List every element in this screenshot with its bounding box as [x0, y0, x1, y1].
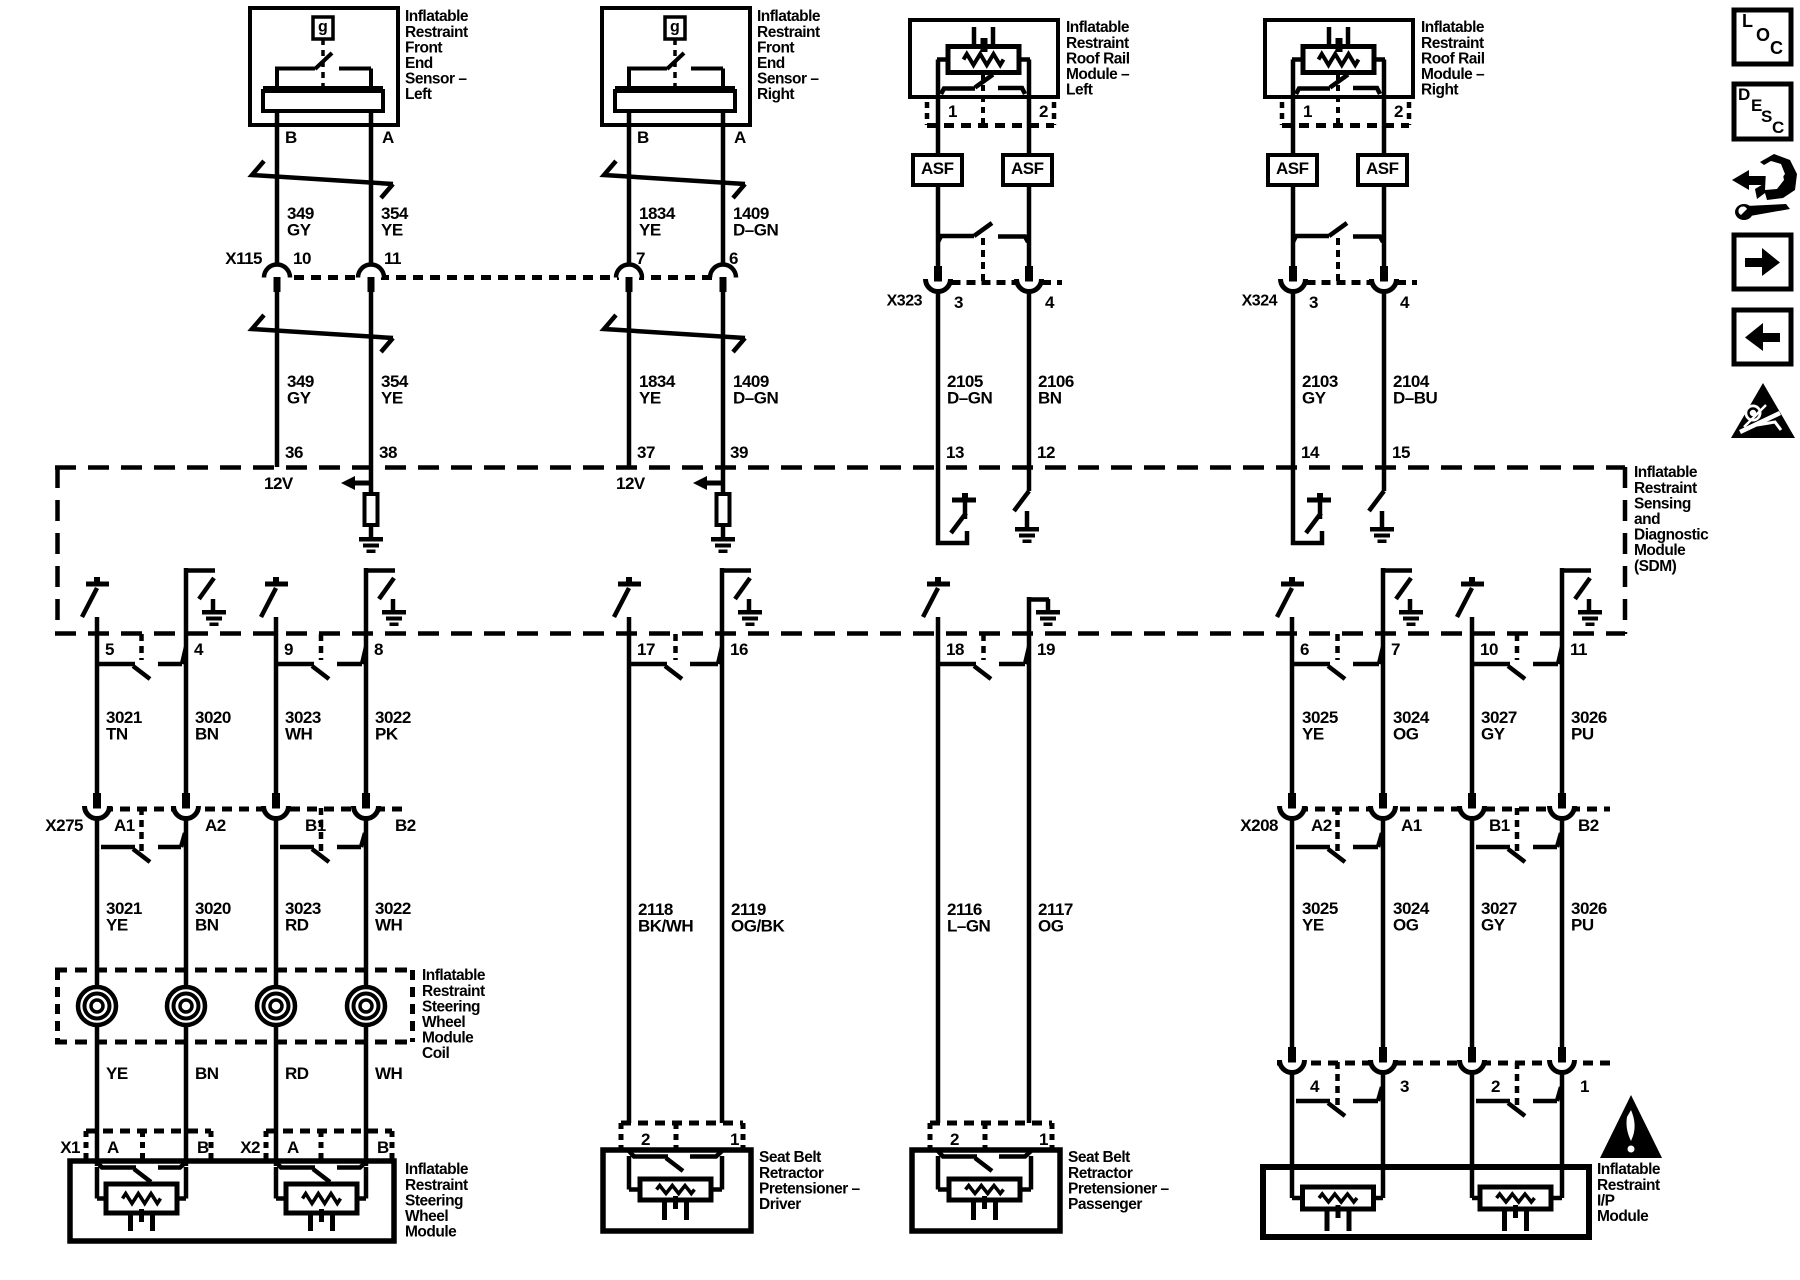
svg-text:X324: X324: [1242, 293, 1278, 310]
connector X208 shorting bar: [1296, 845, 1330, 850]
SDM squib driver (pin 17): [618, 582, 641, 587]
svg-text:BN: BN: [195, 1064, 219, 1083]
svg-text:8: 8: [374, 640, 383, 659]
wire SDM to X275: [95, 634, 100, 794]
X324 terminal 4: [1382, 242, 1387, 266]
svg-text:BK/WH: BK/WH: [638, 917, 693, 936]
SDM return to ground (pin 19): [1027, 597, 1032, 634]
svg-text:Restraint: Restraint: [757, 24, 820, 41]
svg-text:Steering: Steering: [422, 998, 480, 1015]
svg-text:GY: GY: [287, 221, 312, 240]
wire 3022 WH X275 to coil: [364, 820, 369, 987]
roof rail pin connector dashed box (Left): [927, 123, 1054, 128]
svg-text:YE: YE: [381, 221, 403, 240]
SDM ground (under deploy switch): [1370, 527, 1394, 532]
svg-text:YE: YE: [1302, 725, 1324, 744]
connector X275 terminal: [264, 800, 288, 824]
svg-text:12: 12: [1037, 443, 1055, 462]
wire SDM to pretensioner: [627, 634, 632, 1123]
SDM ground (pin 16): [738, 610, 762, 615]
SDM resistor ground: [359, 537, 383, 542]
Inflatable Restraint Front End Sensor - Right module box: [602, 8, 750, 125]
svg-text:OG: OG: [1393, 725, 1419, 744]
svg-text:WH: WH: [285, 725, 313, 744]
svg-text:B2: B2: [395, 816, 416, 835]
connector dashed separator (pins 17/16): [673, 634, 678, 660]
roof rail squib side stubs (Left): [937, 57, 948, 62]
wire SDM to X208: [1290, 634, 1295, 794]
sensor element bar (Left): [263, 86, 383, 92]
wire to I/P module: [1290, 1074, 1295, 1172]
svg-text:OG: OG: [1038, 917, 1064, 936]
wire ASF1 to X324 (Right): [1291, 185, 1296, 242]
shorting switch above X323: [938, 236, 974, 242]
SDM return switch (pin 7): [1381, 568, 1386, 634]
svg-text:Module: Module: [1597, 1208, 1649, 1225]
svg-text:S: S: [1761, 107, 1772, 126]
svg-text:Coil: Coil: [422, 1045, 449, 1062]
svg-text:A: A: [734, 128, 746, 147]
wire X208 to I/P connector: [1381, 820, 1386, 1048]
svg-text:BN: BN: [195, 916, 219, 935]
coil winding: [347, 987, 385, 1025]
wire SDM to X275: [364, 634, 369, 794]
svg-text:Driver: Driver: [759, 1196, 801, 1213]
svg-text:Inflatable: Inflatable: [1597, 1161, 1661, 1178]
connector X208 dashed separator: [1335, 808, 1340, 855]
svg-text:3: 3: [1309, 293, 1318, 312]
svg-text:D–GN: D–GN: [947, 389, 992, 408]
svg-text:C: C: [1770, 38, 1783, 58]
wire ASF2 to X324 (Right): [1382, 185, 1387, 242]
squib (initiator): [1480, 1187, 1551, 1209]
svg-text:X275: X275: [45, 816, 83, 835]
wire 1409 D-GN from sensor-right pin A: [721, 111, 726, 264]
svg-text:37: 37: [637, 443, 655, 462]
connector shorting bar (pins 5/4): [99, 662, 135, 667]
connector I/P module connector dashed separator: [1335, 1062, 1340, 1109]
svg-text:1: 1: [730, 1130, 739, 1149]
connector I/P module connector terminal: [1460, 1054, 1484, 1078]
svg-text:Inflatable: Inflatable: [405, 8, 469, 25]
svg-text:D–GN: D–GN: [733, 389, 778, 408]
svg-text:D–GN: D–GN: [733, 221, 778, 240]
svg-text:Left: Left: [405, 86, 432, 103]
svg-text:D: D: [1738, 85, 1750, 104]
connector X208 dashed line: [1281, 807, 1610, 812]
wire below coil: [184, 1025, 189, 1166]
wire from roof-rail Right pin 2 to ASF: [1382, 97, 1387, 155]
wire X323-3 to SDM: [936, 291, 941, 467]
connector X275 terminal: [354, 800, 378, 824]
connector I/P module connector terminal: [1550, 1054, 1574, 1078]
SDM feed arrow: [341, 476, 355, 490]
icon airbag warning triangle: [1731, 383, 1795, 438]
svg-text:36: 36: [285, 443, 303, 462]
roof rail pin connector dashed box (Right): [1282, 123, 1409, 128]
wire 1409 D-GN to SDM pin 39: [721, 290, 726, 467]
pretensioner connector dashed box (Passenger): [930, 1121, 1052, 1126]
svg-text:Sensor –: Sensor –: [405, 71, 467, 88]
svg-text:A2: A2: [205, 816, 226, 835]
ASF shorting bar box 1 (Left): [913, 155, 962, 185]
svg-text:O: O: [1756, 25, 1770, 45]
svg-text:B1: B1: [1489, 816, 1510, 835]
svg-text:B: B: [197, 1138, 209, 1157]
connector X208 terminal: [1371, 800, 1395, 824]
svg-text:Restraint: Restraint: [1597, 1177, 1660, 1194]
svg-text:2: 2: [1394, 102, 1403, 121]
wire SDM to X275: [274, 634, 279, 794]
svg-text:Wheel: Wheel: [422, 1014, 465, 1031]
ASF shorting bar box 2 (Right): [1358, 155, 1407, 185]
squib wires into module: [936, 1156, 941, 1190]
svg-text:g: g: [670, 19, 679, 36]
SDM ground (pin 8): [382, 610, 406, 615]
SDM deploy switch (left leg): [938, 467, 967, 543]
icon forward arrow box: [1734, 235, 1791, 289]
svg-text:ASF: ASF: [1276, 159, 1309, 178]
svg-text:PU: PU: [1571, 916, 1594, 935]
svg-text:PU: PU: [1571, 725, 1594, 744]
wire SDM to pretensioner: [1027, 634, 1032, 1123]
wire 1834 YE from sensor-right pin B: [627, 111, 632, 264]
svg-text:End: End: [405, 55, 433, 72]
roof rail squib side stubs (Right): [1292, 57, 1303, 62]
svg-text:X115: X115: [225, 249, 262, 268]
twisted-pair symbol (left sensor wires, lower): [252, 315, 393, 338]
svg-text:11: 11: [384, 249, 401, 268]
svg-text:4: 4: [1400, 293, 1410, 312]
svg-text:A: A: [382, 128, 394, 147]
svg-text:Restraint: Restraint: [1634, 480, 1697, 497]
svg-text:YE: YE: [106, 916, 128, 935]
svg-text:10: 10: [1480, 640, 1498, 659]
sensor element bar (Right): [615, 86, 735, 92]
pretensioner connector dashed box (Driver): [621, 1121, 743, 1126]
roof rail shorting switch (Right): [1291, 60, 1296, 98]
connector dashed separator (pins 10/11): [1515, 634, 1520, 660]
svg-text:Front: Front: [405, 39, 442, 56]
connector I/P module connector dashed line: [1277, 1061, 1612, 1066]
wire to I/P module: [1381, 1074, 1386, 1172]
ASF shorting bar box 2 (Left): [1003, 155, 1052, 185]
wire from roof-rail Left pin 1 to ASF: [936, 97, 941, 155]
wire ASF2 to X323 (Left): [1027, 185, 1032, 242]
SDM squib driver (pin 18): [927, 582, 950, 587]
connector I/P module connector terminal: [1371, 1054, 1395, 1078]
svg-text:Pretensioner –: Pretensioner –: [759, 1180, 861, 1197]
squib (initiator): [640, 1179, 711, 1200]
svg-text:7: 7: [1391, 640, 1400, 659]
svg-text:Right: Right: [1421, 82, 1458, 99]
SDM return switch (pin 8): [364, 568, 369, 634]
svg-text:Module: Module: [1634, 542, 1686, 559]
SDM return switch (pin 4): [184, 568, 189, 634]
squib wires into module: [1290, 1172, 1295, 1198]
svg-text:4: 4: [1045, 293, 1055, 312]
SDM resistor ground: [711, 537, 735, 542]
svg-text:7: 7: [636, 249, 645, 268]
icon back arrow box: [1734, 310, 1791, 364]
wire 1834 YE to SDM pin 37: [627, 290, 632, 467]
X323 terminal 3: [936, 242, 941, 266]
svg-text:BN: BN: [1038, 389, 1062, 408]
SDM ground (under deploy switch): [1015, 527, 1039, 532]
svg-text:WH: WH: [375, 916, 403, 935]
Seat Belt Retractor Pretensioner - Driver box: [603, 1150, 751, 1231]
connector I/P module connector terminal: [1280, 1054, 1304, 1078]
svg-text:C: C: [1772, 118, 1784, 137]
Inflatable Restraint Roof Rail Module - Left box: [910, 20, 1058, 97]
svg-text:Right: Right: [757, 86, 794, 103]
Inflatable Restraint Steering Wheel Module Coil dashed box: [55, 968, 415, 973]
svg-text:Retractor: Retractor: [1068, 1165, 1133, 1182]
connector X275 terminal: [85, 800, 109, 824]
squib wires into module: [627, 1156, 632, 1190]
svg-text:B: B: [637, 128, 649, 147]
wire X208 to I/P connector: [1290, 820, 1295, 1048]
svg-text:Module: Module: [422, 1030, 474, 1047]
svg-text:Roof Rail: Roof Rail: [1421, 50, 1485, 67]
svg-text:Restraint: Restraint: [405, 24, 468, 41]
connector X1 dashed box: [86, 1129, 211, 1134]
svg-text:12V: 12V: [616, 474, 646, 493]
icon arrows and wrench: [1732, 170, 1749, 190]
svg-text:Roof Rail: Roof Rail: [1066, 50, 1130, 67]
svg-text:GY: GY: [1481, 725, 1506, 744]
g symbol box (Right sensor): [665, 17, 685, 39]
SDM ground (pin 4): [202, 610, 226, 615]
svg-text:WH: WH: [375, 1064, 403, 1083]
connector X275 shorting bar: [280, 845, 314, 850]
svg-text:10: 10: [293, 249, 311, 268]
wire X208 to I/P connector: [1470, 820, 1475, 1048]
ASF shorting bar box 1 (Right): [1268, 155, 1317, 185]
svg-text:18: 18: [946, 640, 964, 659]
connector dashed separator (pins 6/7): [1335, 634, 1340, 660]
svg-text:2: 2: [641, 1130, 650, 1149]
svg-text:Left: Left: [1066, 82, 1093, 99]
svg-text:Module –: Module –: [1421, 66, 1485, 83]
squib wires into module: [274, 1167, 279, 1199]
svg-text:2: 2: [950, 1130, 959, 1149]
svg-text:YE: YE: [381, 389, 403, 408]
wire X208 to I/P connector: [1560, 820, 1565, 1048]
module shorting bar: [938, 1151, 977, 1157]
svg-text:End: End: [757, 55, 785, 72]
wire 354 YE to SDM pin 38: [369, 290, 374, 467]
svg-text:17: 17: [637, 640, 655, 659]
wire to I/P module: [1470, 1074, 1475, 1172]
svg-text:B: B: [285, 128, 297, 147]
connector X208 terminal: [1550, 800, 1574, 824]
module shorting bar: [97, 1162, 136, 1168]
svg-text:12V: 12V: [264, 474, 294, 493]
connector shorting bar (pins 17/16): [631, 662, 667, 667]
SDM squib driver (pin 10): [1461, 582, 1484, 587]
svg-text:13: 13: [946, 443, 964, 462]
coil winding: [167, 987, 205, 1025]
svg-text:RD: RD: [285, 916, 309, 935]
svg-text:Inflatable: Inflatable: [1421, 19, 1485, 36]
SDM sense resistor: [721, 467, 726, 494]
svg-text:9: 9: [284, 640, 293, 659]
SDM ground (pin 7): [1399, 610, 1423, 615]
svg-text:A1: A1: [1401, 816, 1422, 835]
svg-text:GY: GY: [287, 389, 312, 408]
svg-text:OG/BK: OG/BK: [731, 917, 785, 936]
svg-text:6: 6: [729, 249, 738, 268]
svg-text:Steering: Steering: [405, 1192, 463, 1209]
roof rail squib resistor (Right): [1303, 47, 1374, 73]
squib (initiator): [106, 1184, 177, 1213]
svg-text:Restraint: Restraint: [1066, 35, 1129, 52]
connector dashed separator (pins 5/4): [139, 634, 144, 660]
svg-text:BN: BN: [195, 725, 219, 744]
wire 354 YE from sensor-left pin A: [369, 111, 374, 264]
connector shorting bar (pins 6/7): [1294, 662, 1330, 667]
squib (initiator): [286, 1184, 357, 1213]
roof rail squib resistor (Left): [948, 47, 1019, 73]
wire ASF1 to X323 (Left): [936, 185, 941, 242]
svg-text:L: L: [1742, 11, 1753, 31]
airbag caution triangle (I/P module): [1600, 1095, 1662, 1158]
SDM return switch (pin 16): [720, 568, 725, 634]
svg-text:Passenger: Passenger: [1068, 1196, 1142, 1213]
X323 terminal 4: [1027, 242, 1032, 266]
svg-text:6: 6: [1300, 640, 1309, 659]
connector I/P module connector dashed separator: [1515, 1062, 1520, 1109]
connector X115 terminal 10: [267, 272, 287, 283]
connector dashed separator (pins 9/8): [319, 634, 324, 660]
wire below coil: [364, 1025, 369, 1166]
svg-text:GY: GY: [1302, 389, 1327, 408]
svg-text:Inflatable: Inflatable: [757, 8, 821, 25]
connector X275 dashed separator: [139, 808, 144, 855]
twisted-pair symbol (right sensor wires, upper): [604, 161, 745, 184]
svg-text:L–GN: L–GN: [947, 917, 991, 936]
squib (initiator): [949, 1179, 1020, 1200]
svg-text:Module: Module: [405, 1224, 457, 1241]
connector X115 terminal 6: [713, 272, 733, 283]
svg-text:X208: X208: [1240, 816, 1278, 835]
X324 dashed line: [1307, 280, 1371, 285]
svg-text:B2: B2: [1578, 816, 1599, 835]
connector I/P module connector shorting bar: [1476, 1099, 1510, 1104]
wire from roof-rail Right pin 1 to ASF: [1291, 97, 1296, 155]
Inflatable Restraint Roof Rail Module - Right box: [1265, 20, 1413, 97]
icon LOC box: [1734, 10, 1791, 64]
X323 dashed line: [952, 280, 1016, 285]
svg-text:TN: TN: [106, 725, 128, 744]
wire 3021 YE X275 to coil: [95, 820, 100, 987]
shorting switch above X324: [1293, 236, 1329, 242]
svg-text:Wheel: Wheel: [405, 1208, 448, 1225]
svg-text:Restraint: Restraint: [1421, 35, 1484, 52]
svg-text:Front: Front: [757, 39, 794, 56]
svg-text:Module –: Module –: [1066, 66, 1130, 83]
module shorting bar: [276, 1162, 315, 1168]
svg-text:5: 5: [105, 640, 114, 659]
wire SDM to pretensioner: [720, 634, 725, 1123]
g symbol box (Left sensor): [313, 17, 333, 39]
connector shorting bar (pins 18/19): [940, 662, 976, 667]
svg-text:15: 15: [1392, 443, 1410, 462]
svg-text:Pretensioner –: Pretensioner –: [1068, 1180, 1170, 1197]
svg-text:A2: A2: [1311, 816, 1332, 835]
svg-text:2: 2: [1491, 1077, 1500, 1096]
connector X275 dashed line: [86, 807, 404, 812]
svg-text:11: 11: [1570, 640, 1587, 659]
svg-text:19: 19: [1037, 640, 1055, 659]
connector I/P module connector shorting bar: [1296, 1099, 1330, 1104]
svg-text:ASF: ASF: [1011, 159, 1044, 178]
wire 3020 BN X275 to coil: [184, 820, 189, 987]
svg-text:YE: YE: [639, 389, 661, 408]
twisted-pair symbol (left sensor wires, upper): [252, 161, 393, 184]
wire 3023 RD X275 to coil: [274, 820, 279, 987]
wire X323-4 to SDM: [1027, 291, 1032, 467]
SDM sense resistor: [369, 467, 374, 494]
connector X115 terminal 7: [619, 272, 639, 283]
connector X275 dashed separator: [319, 808, 324, 855]
svg-text:Inflatable: Inflatable: [422, 967, 486, 984]
squib wires into module: [95, 1167, 100, 1199]
twisted-pair symbol (right sensor wires, lower): [604, 315, 745, 338]
svg-text:OG: OG: [1393, 916, 1419, 935]
Inflatable Restraint I/P Module box: [1263, 1167, 1589, 1237]
svg-text:(SDM): (SDM): [1634, 558, 1677, 575]
svg-text:38: 38: [379, 443, 397, 462]
icon DESC box: [1734, 84, 1791, 139]
connector X2 dashed box: [266, 1129, 392, 1134]
svg-text:4: 4: [1310, 1077, 1320, 1096]
connector X115 dashed line: [277, 275, 723, 280]
svg-text:1: 1: [1580, 1077, 1589, 1096]
svg-text:X2: X2: [240, 1138, 260, 1157]
module shorting bar: [629, 1151, 668, 1157]
connector X115 terminal 11: [361, 272, 381, 283]
svg-text:2: 2: [1039, 102, 1048, 121]
svg-text:Inflatable: Inflatable: [1066, 19, 1130, 36]
connector shorting bar (pins 9/8): [278, 662, 314, 667]
connector shorting bar (pins 10/11): [1474, 662, 1510, 667]
svg-text:PK: PK: [375, 725, 399, 744]
wire SDM to X275: [184, 634, 189, 794]
svg-text:ASF: ASF: [921, 159, 954, 178]
roof rail shorting switch (Left): [936, 60, 941, 98]
svg-text:g: g: [318, 19, 327, 36]
svg-text:1: 1: [1303, 102, 1312, 121]
SDM squib driver (pin 5): [86, 582, 109, 587]
wire SDM to X208: [1560, 634, 1565, 794]
svg-text:and: and: [1634, 511, 1660, 528]
connector X208 dashed separator: [1515, 808, 1520, 855]
svg-text:Sensor –: Sensor –: [757, 71, 819, 88]
squib wires into module: [1470, 1172, 1475, 1198]
wire below coil: [95, 1025, 100, 1166]
squib (initiator): [1303, 1187, 1374, 1209]
svg-text:RD: RD: [285, 1064, 309, 1083]
wire X324-4 to SDM: [1382, 291, 1387, 467]
coil winding: [78, 987, 116, 1025]
wire SDM to pretensioner: [936, 634, 941, 1123]
svg-text:I/P: I/P: [1597, 1192, 1615, 1209]
SDM feed arrow: [693, 476, 707, 490]
wire below coil: [274, 1025, 279, 1166]
SDM deploy switch to ground (right leg): [1382, 467, 1387, 491]
